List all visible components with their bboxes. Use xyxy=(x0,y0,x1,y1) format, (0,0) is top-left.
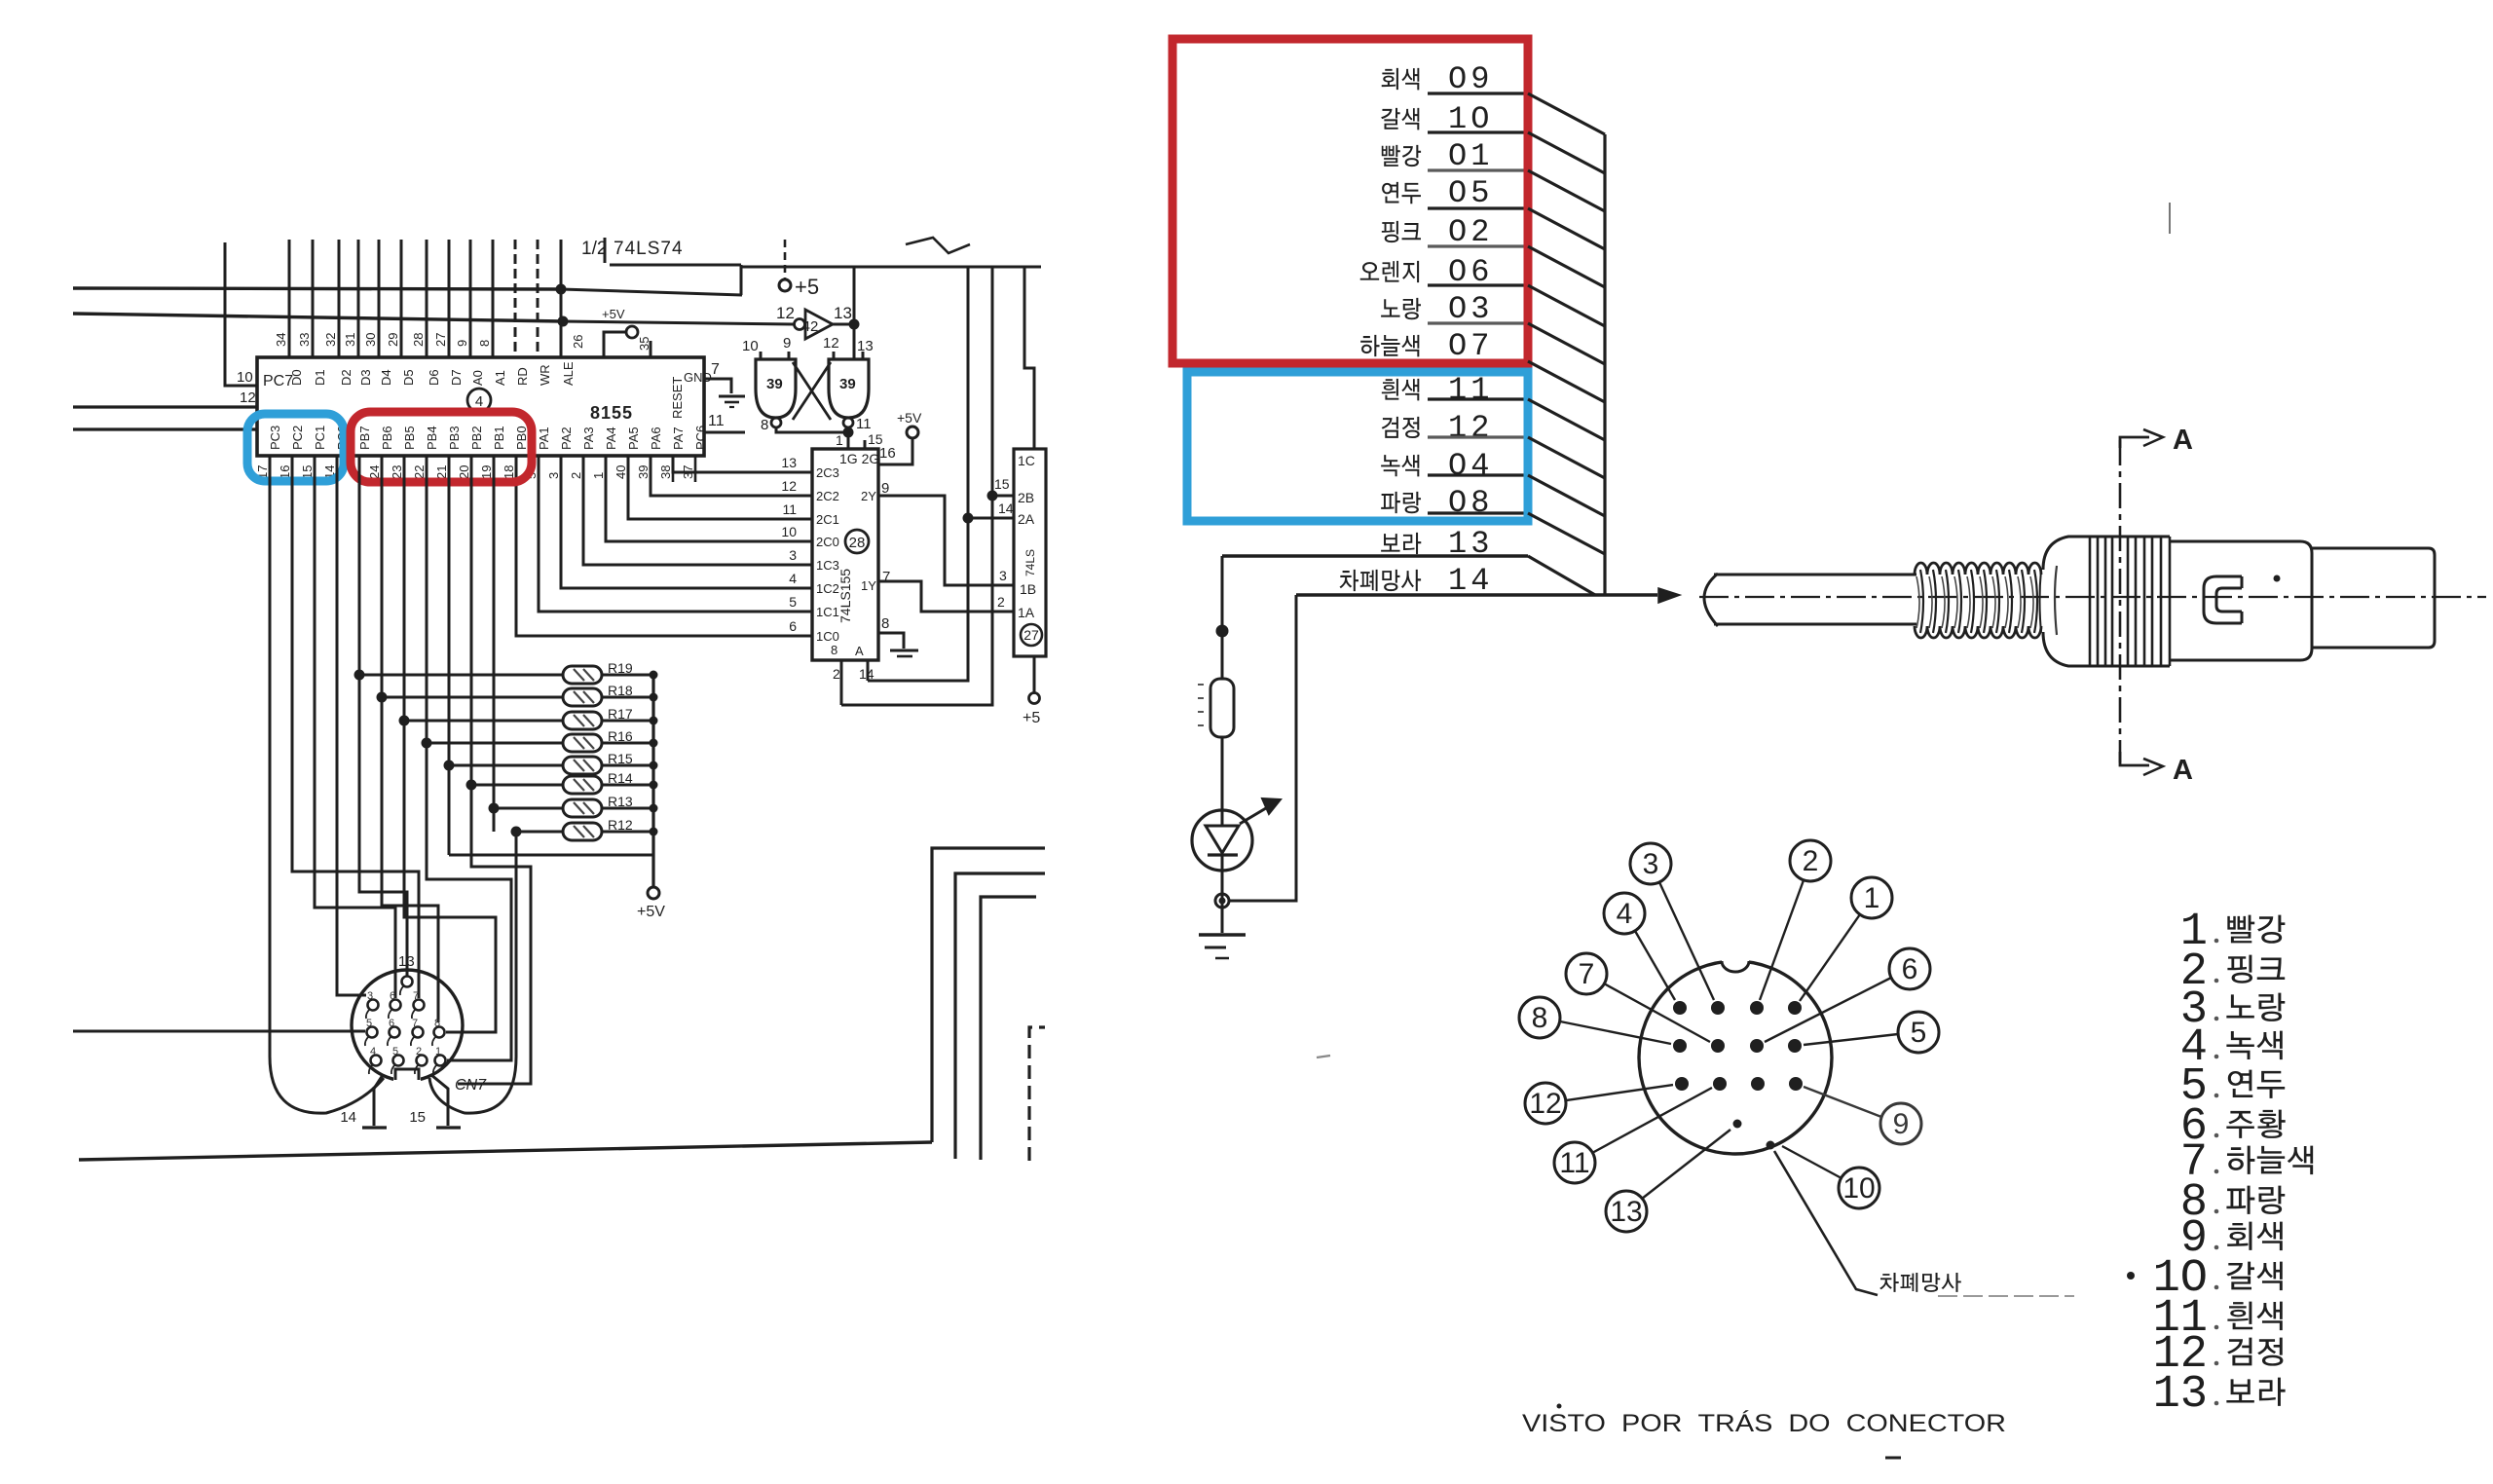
NAND gate 39 (b) xyxy=(829,359,869,418)
+5V terminal xyxy=(648,887,659,899)
svg-text:8155: 8155 xyxy=(590,403,633,423)
svg-text:1C2: 1C2 xyxy=(816,581,839,596)
svg-text:2: 2 xyxy=(997,594,1005,610)
table row 보라 13 xyxy=(1381,533,1421,554)
table row 흰색 11 xyxy=(1382,379,1419,401)
svg-text:13: 13 xyxy=(398,953,415,970)
svg-text:35: 35 xyxy=(637,337,651,351)
svg-text:A: A xyxy=(2173,425,2193,456)
svg-text:10: 10 xyxy=(742,338,759,354)
svg-text:8: 8 xyxy=(1532,1002,1548,1034)
cable end cap xyxy=(1704,574,1718,626)
legs 14/15 with bars xyxy=(374,1075,383,1126)
svg-text:13: 13 xyxy=(1610,1196,1642,1228)
svg-text:1C1: 1C1 xyxy=(816,605,839,619)
svg-text:1A: 1A xyxy=(1018,605,1035,620)
svg-text:1C: 1C xyxy=(1018,453,1035,468)
svg-text:1C0: 1C0 xyxy=(816,629,839,644)
svg-text:10: 10 xyxy=(237,369,253,386)
cable arrow xyxy=(1658,588,1680,603)
body dot xyxy=(2274,575,2281,582)
pin label 12 xyxy=(1525,1083,1566,1124)
svg-text:74LS155: 74LS155 xyxy=(837,569,853,623)
blue group box xyxy=(1187,372,1528,521)
svg-text:14: 14 xyxy=(998,501,1014,516)
svg-text:PC6: PC6 xyxy=(693,426,708,450)
table row 노랑 03 xyxy=(1381,298,1421,319)
cross coupling xyxy=(793,362,831,420)
svg-text:1: 1 xyxy=(836,432,843,448)
svg-text:12: 12 xyxy=(781,478,797,494)
table row 검정 12 xyxy=(1382,417,1420,438)
plug body xyxy=(2170,541,2312,660)
svg-text:D1: D1 xyxy=(313,369,327,386)
connector pins xyxy=(1673,1001,1687,1015)
vertical buses to U27 xyxy=(868,267,968,681)
wire PC7 pin 10 xyxy=(225,242,257,386)
svg-text:29: 29 xyxy=(386,333,400,347)
svg-text:3: 3 xyxy=(999,568,1007,583)
svg-text:2C0: 2C0 xyxy=(816,535,839,549)
svg-text:9: 9 xyxy=(783,335,791,352)
svg-text:O5: O5 xyxy=(1448,175,1493,211)
svg-text:ALE: ALE xyxy=(561,361,576,386)
wiring nest to DIN connector xyxy=(270,456,384,1113)
red group box xyxy=(1172,39,1528,363)
svg-text:9: 9 xyxy=(455,340,469,347)
svg-text:PA4: PA4 xyxy=(604,427,618,450)
74LS155 left input pins xyxy=(673,456,812,472)
ground xyxy=(1199,933,1246,937)
svg-text:PB6: PB6 xyxy=(380,426,394,450)
plug nose xyxy=(2312,548,2435,648)
svg-text:RD: RD xyxy=(515,367,530,386)
wire to chip left xyxy=(73,405,257,408)
junction dot xyxy=(1216,625,1229,638)
svg-text:D3: D3 xyxy=(358,369,373,386)
svg-text:D0: D0 xyxy=(289,369,304,386)
bundle edge vertical xyxy=(1603,134,1606,595)
svg-text:39: 39 xyxy=(636,465,651,479)
svg-text:8: 8 xyxy=(761,417,768,433)
svg-text:O7: O7 xyxy=(1448,328,1493,364)
inverter 42 pins 12/13 xyxy=(795,319,805,330)
svg-text:CN7: CN7 xyxy=(455,1077,487,1094)
svg-text:7: 7 xyxy=(413,990,419,1002)
pin label 6 xyxy=(1889,948,1930,989)
svg-text:D7: D7 xyxy=(449,369,464,386)
svg-text:34: 34 xyxy=(274,333,288,347)
svg-text:6: 6 xyxy=(1902,953,1918,985)
svg-text:+5V: +5V xyxy=(602,307,625,321)
svg-text:PA7: PA7 xyxy=(671,427,686,450)
svg-text:A: A xyxy=(855,644,864,658)
svg-text:PB3: PB3 xyxy=(447,426,462,450)
svg-text:PB0: PB0 xyxy=(514,426,529,450)
svg-text:1/2: 1/2 xyxy=(581,239,607,259)
LED D1 xyxy=(1192,810,1252,871)
pin label 13 xyxy=(1606,1191,1647,1232)
svg-text:PB2: PB2 xyxy=(469,426,484,450)
pin label 3 xyxy=(1630,843,1671,884)
svg-text:1: 1 xyxy=(1864,882,1880,914)
svg-text:5: 5 xyxy=(1911,1017,1927,1049)
resistor R12 xyxy=(511,827,522,837)
svg-text:6: 6 xyxy=(389,1018,394,1029)
svg-text:15: 15 xyxy=(868,431,883,447)
table row 핑크 02 xyxy=(1382,221,1421,242)
pin label 11 xyxy=(1554,1142,1595,1183)
svg-text:12: 12 xyxy=(776,304,795,322)
svg-text:27: 27 xyxy=(433,333,448,347)
table row 파랑 08 xyxy=(1381,492,1421,513)
svg-text:8: 8 xyxy=(881,615,889,632)
table row 연두 05 xyxy=(1382,182,1421,204)
svg-text:6: 6 xyxy=(390,990,395,1002)
pin label 1 xyxy=(1851,877,1892,918)
svg-text:A1: A1 xyxy=(493,370,507,386)
body slot (C shape) xyxy=(2204,576,2242,623)
resistor R19 xyxy=(354,670,365,681)
svg-text:26: 26 xyxy=(571,335,585,349)
svg-text:38: 38 xyxy=(658,465,673,479)
pin label 2 xyxy=(1790,840,1831,881)
svg-text:1Y: 1Y xyxy=(861,578,876,593)
svg-text:O8: O8 xyxy=(1448,485,1493,521)
svg-text:2C3: 2C3 xyxy=(816,465,839,480)
svg-text:2: 2 xyxy=(569,472,583,479)
svg-text:15: 15 xyxy=(994,476,1010,492)
svg-text:28: 28 xyxy=(849,535,866,551)
resistor R13 xyxy=(489,803,500,814)
IC 74LS157 (27) xyxy=(1014,449,1046,656)
svg-text:10: 10 xyxy=(1842,1172,1875,1205)
svg-text:27: 27 xyxy=(1023,627,1039,643)
wire resistor to LED xyxy=(1221,737,1224,810)
table row 녹색 04 xyxy=(1381,455,1419,477)
table row 차폐망사 14 xyxy=(1340,570,1422,591)
svg-text:D2: D2 xyxy=(339,369,353,386)
svg-text:11: 11 xyxy=(1448,372,1493,408)
74LS155 decoder xyxy=(812,449,878,660)
resistor R16 xyxy=(422,738,432,749)
svg-text:18: 18 xyxy=(502,465,516,479)
svg-text:6: 6 xyxy=(789,618,797,634)
connector rear view circle xyxy=(1639,961,1832,1154)
svg-text:3: 3 xyxy=(367,990,373,1002)
gate input stubs xyxy=(760,352,763,359)
IC 8155 xyxy=(257,357,704,456)
svg-text:D4: D4 xyxy=(379,369,393,386)
svg-text:4: 4 xyxy=(370,1046,376,1057)
shield leader line xyxy=(1774,1151,1878,1295)
plug ribbed ring xyxy=(2068,536,2170,538)
resistor R18 xyxy=(377,692,388,703)
table row 빨강 01 xyxy=(1382,145,1421,167)
svg-text:13: 13 xyxy=(834,304,852,322)
svg-text:39: 39 xyxy=(839,376,856,392)
svg-text:2C1: 2C1 xyxy=(816,512,839,527)
svg-text:40: 40 xyxy=(614,465,628,479)
svg-text:PB4: PB4 xyxy=(425,426,439,450)
svg-text:28: 28 xyxy=(411,333,426,347)
svg-text:1: 1 xyxy=(591,472,606,479)
corrugated strain relief xyxy=(1915,563,2041,575)
shield wire 14 drop xyxy=(1229,595,1296,901)
svg-text:15: 15 xyxy=(409,1109,426,1126)
cable bundle hatching xyxy=(1528,93,1605,134)
table row 오렌지 06 xyxy=(1360,261,1419,282)
svg-text:2Y: 2Y xyxy=(861,489,876,503)
resistor R17 xyxy=(399,716,410,726)
svg-text:1C3: 1C3 xyxy=(816,558,839,573)
pin label 10 xyxy=(1839,1168,1879,1208)
svg-text:PA1: PA1 xyxy=(537,427,551,450)
NAND gate 39 (a) xyxy=(756,359,796,418)
svg-text:3: 3 xyxy=(546,472,561,479)
svg-text:VISTO POR TRÁS DO CONECTOR: VISTO POR TRÁS DO CONECTOR xyxy=(1522,1409,2006,1437)
svg-text:A0: A0 xyxy=(470,370,485,386)
bus horizontals left xyxy=(73,288,561,289)
svg-text:11: 11 xyxy=(782,501,797,517)
svg-text:A: A xyxy=(2173,755,2193,786)
svg-text:WR: WR xyxy=(538,364,552,386)
resistor R14 xyxy=(466,780,477,791)
corner squiggle xyxy=(906,238,970,253)
bottom rail xyxy=(79,1142,932,1160)
svg-text:1: 1 xyxy=(435,1046,441,1057)
svg-text:33: 33 xyxy=(297,333,312,347)
svg-text:GND: GND xyxy=(684,370,712,385)
svg-text:24: 24 xyxy=(367,465,382,479)
svg-text:12: 12 xyxy=(823,335,839,352)
svg-text:16: 16 xyxy=(879,445,896,462)
svg-text:PB7: PB7 xyxy=(357,426,372,450)
svg-text:+5: +5 xyxy=(1023,710,1040,726)
DIN connector CN7 xyxy=(352,970,463,1081)
svg-text:13: 13 xyxy=(2153,1369,2208,1421)
svg-text:13: 13 xyxy=(857,338,874,354)
svg-text:39: 39 xyxy=(766,376,783,392)
svg-text:8: 8 xyxy=(477,340,492,347)
svg-text:8: 8 xyxy=(434,1018,440,1029)
plug collar xyxy=(2043,537,2090,570)
pin frame ticks below chip xyxy=(269,456,272,482)
wire 14 shield line to cable xyxy=(1296,593,1657,596)
svg-text:11: 11 xyxy=(856,416,872,432)
svg-text:11: 11 xyxy=(708,413,725,429)
svg-text:PB1: PB1 xyxy=(492,426,506,450)
svg-text:10: 10 xyxy=(781,524,797,539)
svg-text:74LS: 74LS xyxy=(1023,549,1037,576)
top rail xyxy=(741,266,1041,269)
svg-text:2B: 2B xyxy=(1018,490,1034,505)
svg-text:2C2: 2C2 xyxy=(816,489,839,503)
cable body xyxy=(1714,574,1916,576)
table row 하늘색 07 xyxy=(1360,335,1419,357)
svg-text:12: 12 xyxy=(1448,410,1493,446)
svg-text:13: 13 xyxy=(781,455,797,470)
pin label 5 xyxy=(1898,1012,1939,1053)
svg-text:1B: 1B xyxy=(1020,581,1036,597)
pin label 4 xyxy=(1604,893,1645,934)
svg-text:D5: D5 xyxy=(401,369,416,386)
svg-text:21: 21 xyxy=(434,465,449,479)
svg-text:3: 3 xyxy=(1643,848,1659,880)
svg-text:5: 5 xyxy=(392,1046,398,1057)
svg-text:2: 2 xyxy=(1803,845,1819,877)
svg-text:+5V: +5V xyxy=(897,410,922,426)
junction node xyxy=(1215,894,1229,908)
resistor common bus to +5V xyxy=(651,675,654,887)
pin label 9 xyxy=(1880,1103,1921,1144)
svg-text:7: 7 xyxy=(412,1018,418,1029)
svg-text:PA6: PA6 xyxy=(649,427,663,450)
svg-text:12: 12 xyxy=(1529,1088,1561,1120)
table row 회색 09 xyxy=(1382,68,1420,91)
svg-text:PC3: PC3 xyxy=(268,426,282,450)
LED arrow (light) xyxy=(1240,805,1271,824)
svg-text:PA3: PA3 xyxy=(581,427,596,450)
wire from pin 13 down xyxy=(1221,556,1224,679)
svg-text:5: 5 xyxy=(366,1018,372,1029)
svg-text:4: 4 xyxy=(789,571,797,586)
svg-text:14: 14 xyxy=(340,1109,356,1126)
svg-text:9: 9 xyxy=(881,480,889,497)
svg-text:7: 7 xyxy=(1579,958,1595,990)
resistor R15 xyxy=(444,761,455,771)
wire 13 line to LED circuit xyxy=(1222,554,1528,557)
svg-text:74LS74: 74LS74 xyxy=(614,239,684,259)
svg-text:PC2: PC2 xyxy=(290,426,305,450)
svg-text:30: 30 xyxy=(363,333,378,347)
svg-text:4: 4 xyxy=(475,393,483,410)
svg-text:31: 31 xyxy=(343,333,357,347)
svg-text:2: 2 xyxy=(416,1046,422,1057)
wire LED to ground xyxy=(1221,871,1224,933)
svg-text:1G 2G: 1G 2G xyxy=(839,451,879,466)
section line A-A xyxy=(2119,440,2122,762)
svg-text:+5V: +5V xyxy=(637,904,665,920)
svg-text:PC1: PC1 xyxy=(313,426,327,450)
svg-text:11: 11 xyxy=(1559,1147,1589,1179)
+5V hook pin 26 xyxy=(604,332,626,357)
svg-text:PA5: PA5 xyxy=(626,427,641,450)
svg-text:9: 9 xyxy=(1893,1108,1910,1140)
resistor R (vertical) xyxy=(1210,679,1234,737)
svg-text:O4: O4 xyxy=(1448,448,1493,484)
center line dash-dot xyxy=(1699,596,2486,598)
shield rim dot xyxy=(1767,1141,1775,1150)
table row 갈색 10 xyxy=(1381,108,1419,130)
svg-text:D6: D6 xyxy=(427,369,441,386)
pin label 8 xyxy=(1519,997,1560,1038)
svg-text:+5: +5 xyxy=(795,275,819,299)
data/address bus verticals xyxy=(288,240,291,357)
svg-text:PA2: PA2 xyxy=(559,427,574,450)
pin label 7 xyxy=(1566,953,1607,994)
+5 terminal xyxy=(784,240,787,279)
svg-text:RESET: RESET xyxy=(670,377,685,419)
svg-text:PB5: PB5 xyxy=(402,426,417,450)
svg-text:2A: 2A xyxy=(1018,511,1035,527)
svg-text:23: 23 xyxy=(390,465,404,479)
svg-text:32: 32 xyxy=(323,333,338,347)
svg-text:7: 7 xyxy=(711,361,720,378)
nested corner wires xyxy=(932,848,1045,1142)
svg-text:5: 5 xyxy=(789,594,797,610)
svg-text:42: 42 xyxy=(802,318,819,335)
svg-text:8: 8 xyxy=(831,643,837,657)
svg-text:12: 12 xyxy=(240,390,256,406)
svg-text:22: 22 xyxy=(412,465,427,479)
svg-text:2: 2 xyxy=(833,666,840,682)
svg-text:3: 3 xyxy=(789,547,797,563)
red PB group box xyxy=(351,412,532,482)
svg-text:20: 20 xyxy=(457,465,471,479)
blue PC group box xyxy=(247,414,344,481)
svg-text:37: 37 xyxy=(681,465,695,479)
svg-text:4: 4 xyxy=(1617,898,1633,930)
svg-text:19: 19 xyxy=(479,465,494,479)
